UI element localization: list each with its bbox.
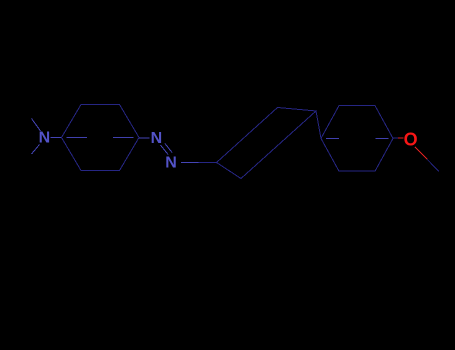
ring3 inner double bond lines — [326, 137, 339, 139]
svg-text:N: N — [151, 130, 163, 147]
bond ring2 to ring3 — [316, 111, 321, 138]
ring2 distorted ring outline — [217, 108, 317, 179]
bond ring3 to O — [393, 137, 398, 139]
benzene ring1 — [62, 105, 140, 171]
azo N=N double bond — [161, 145, 169, 155]
benzene ring3 — [321, 106, 393, 172]
bond azo N2 to ring2 — [181, 162, 199, 164]
bond O to CH3 — [415, 147, 427, 159]
bond N(CH3)2 to ring1 — [51, 137, 62, 139]
ring1 inner double bond lines — [67, 136, 88, 138]
bond ring1 to azo N1 — [139, 137, 150, 139]
svg-text:O: O — [404, 129, 418, 149]
methyl CH3 lower-left bond — [32, 145, 40, 155]
methyl CH3 upper-left bond — [32, 119, 41, 132]
svg-text:N: N — [165, 155, 177, 172]
svg-text:N: N — [39, 130, 51, 147]
